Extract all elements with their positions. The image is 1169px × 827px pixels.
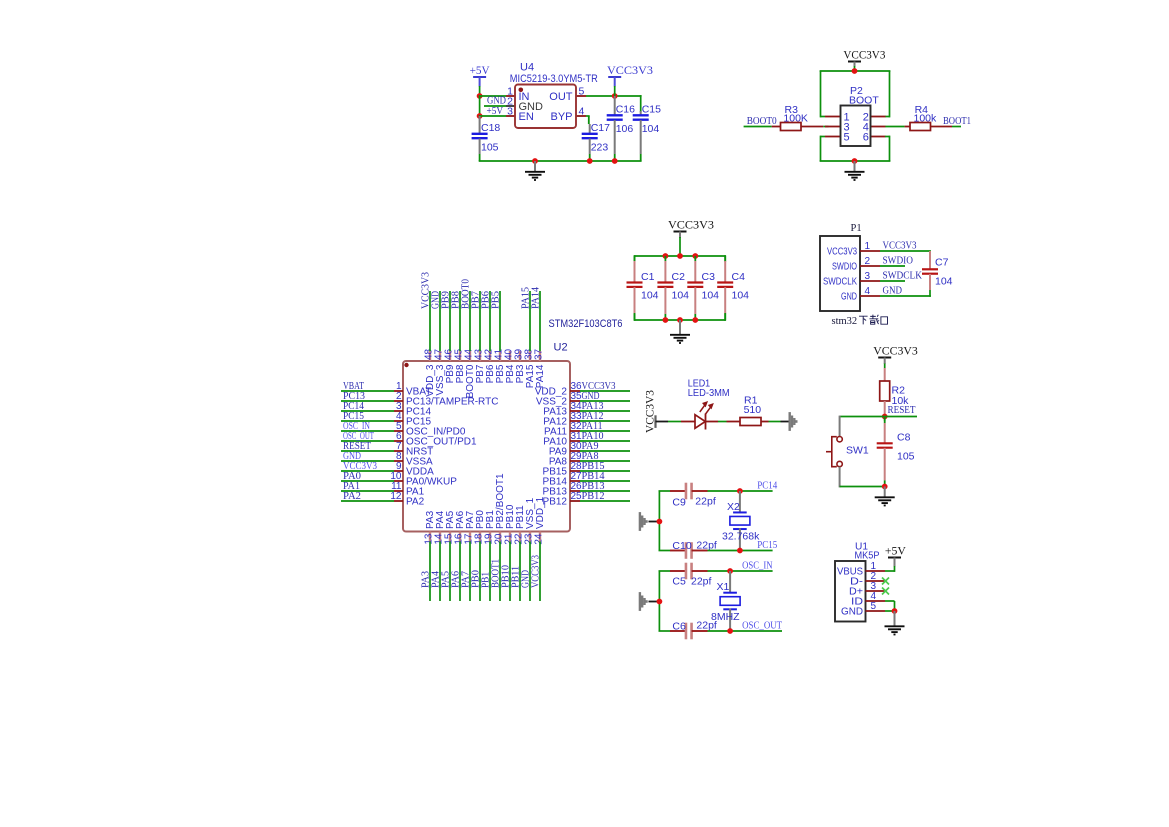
ground (decoupling bank) <box>670 320 690 343</box>
wire net PA2 (mcu left pin 12) <box>341 500 394 502</box>
wire R4 to BOOT1 <box>952 126 961 128</box>
svg-text:C15: C15 <box>642 104 661 116</box>
mcu U2 pin 24 VDD_1 (bottom) <box>534 496 546 544</box>
junction at IN node <box>477 93 483 99</box>
wire pin1 to C7 top <box>880 250 931 252</box>
capacitor C5 22pf <box>670 563 712 588</box>
ground (usb) <box>885 611 905 635</box>
wire net OSC_IN (mcu left pin 5) <box>341 430 394 432</box>
mcu U2 pin 40 PB4 (top) <box>504 348 516 383</box>
wire 8M left rail <box>658 571 660 631</box>
mcu U2 pin 29 PA8 (right) <box>549 451 582 467</box>
mcu U2 pin 9 VDDA (left) <box>394 461 434 477</box>
svg-text:5: 5 <box>579 86 585 98</box>
svg-text:X2: X2 <box>727 501 740 513</box>
wire OUT rail corner down to C15 <box>640 95 642 112</box>
svg-text:1: 1 <box>865 241 871 252</box>
wire net PB5 (mcu top pin 41) <box>499 291 501 351</box>
wire net VCC3V3 (mcu top pin 48) <box>429 291 431 351</box>
svg-text:C8: C8 <box>897 432 911 444</box>
svg-text:VCC3V3: VCC3V3 <box>531 555 542 588</box>
wire boot left rail lower <box>820 136 822 161</box>
wire cap bank bottom rail <box>635 319 726 321</box>
svg-text:GND: GND <box>487 96 506 107</box>
svg-text:4: 4 <box>579 106 585 118</box>
svg-text:OUT: OUT <box>549 91 573 103</box>
svg-text:VCC3V3: VCC3V3 <box>843 49 885 61</box>
junction top rail VCC <box>677 253 683 259</box>
svg-text:104: 104 <box>642 123 660 135</box>
wire pin4 to C7 bottom <box>880 295 931 297</box>
wire net PA14 (mcu top pin 37) <box>539 291 541 351</box>
ground rail wire (regulator) <box>479 160 642 162</box>
junction reset gnd node <box>882 484 888 490</box>
svg-text:C3: C3 <box>702 271 716 283</box>
svg-text:6: 6 <box>863 132 869 144</box>
wire net RESET (mcu left pin 7) <box>341 450 394 452</box>
power flag VCC3V3 (reset) <box>873 345 918 357</box>
wire net VCC3V3 (mcu bottom pin 24) <box>539 542 541 602</box>
capacitor C15 104 <box>633 104 661 162</box>
resistor R1 510 <box>727 395 769 426</box>
svg-text:P1: P1 <box>851 223 862 234</box>
resistor R3 100K <box>772 104 824 131</box>
svg-text:104: 104 <box>641 290 659 302</box>
svg-text:PC14: PC14 <box>757 481 778 492</box>
wire C9 to PC14 <box>708 490 773 492</box>
wire boot left rail upper <box>820 71 822 117</box>
wire VCC3V3 to R2 <box>884 364 886 369</box>
wire VCC3V3 to cap rail <box>679 237 681 256</box>
svg-text:GND: GND <box>841 292 857 303</box>
wire C6 to OSC_OUT <box>708 630 783 632</box>
svg-text:105: 105 <box>481 142 499 154</box>
wire VCC3V3 to boot rail <box>854 66 856 71</box>
wire +5V to VBUS <box>894 566 896 572</box>
svg-text:5: 5 <box>844 132 850 144</box>
wire net PA4 (mcu bottom pin 14) <box>439 542 441 602</box>
junction reset node <box>882 414 888 420</box>
svg-text:C6: C6 <box>672 621 686 633</box>
ground arrow (8M) <box>640 592 647 611</box>
wire to LED anode <box>668 421 681 423</box>
svg-text:C2: C2 <box>672 271 686 283</box>
svg-text:510: 510 <box>744 404 762 416</box>
svg-text:X1: X1 <box>717 581 730 593</box>
wire net PC15 (mcu left pin 4) <box>341 420 394 422</box>
svg-text:3: 3 <box>507 106 513 118</box>
no-connect D+ <box>882 588 889 595</box>
wire cap bank top rail <box>635 255 726 257</box>
mcu U2 pin 44 BOOT0 (top) <box>464 348 476 398</box>
svg-text:PA14: PA14 <box>535 364 546 388</box>
wire net VCC3V3 (mcu left pin 9) <box>341 470 394 472</box>
power flag VCC3V3 (regulator output) <box>607 65 653 77</box>
svg-text:SWDCLK: SWDCLK <box>883 271 923 282</box>
svg-text:U4: U4 <box>520 62 534 74</box>
wire SWDCLK stub <box>880 280 905 282</box>
mcu U2 pin 34 PA13 (right) <box>543 401 582 417</box>
mcu U2 pin 23 VSS_1 (bottom) <box>524 497 536 544</box>
svg-text:VCC3V3: VCC3V3 <box>873 345 918 357</box>
wire boot bottom rail <box>820 160 891 162</box>
svg-text:PB12: PB12 <box>543 497 568 508</box>
wire SW1 bottom to gnd node <box>840 486 885 488</box>
ground (reset) <box>875 487 895 506</box>
mcu U2 pin 37 PA14 (top) <box>534 348 546 388</box>
wire +5V rail down <box>479 96 481 116</box>
switch SW1 <box>826 416 869 488</box>
ground arrow (32k) <box>640 512 647 531</box>
junction top rail C2 <box>663 253 669 259</box>
mcu U2 pin 35 VSS_2 (right) <box>536 391 582 407</box>
svg-text:100k: 100k <box>914 113 938 125</box>
wire C5 to OSC_IN <box>708 570 773 572</box>
junction gnd rail at ground <box>532 158 538 164</box>
wire net PC13 (mcu left pin 2) <box>341 400 394 402</box>
capacitor C3 104 <box>687 256 719 320</box>
junction 32k rail <box>657 519 663 525</box>
svg-text:stm32: stm32 <box>832 316 858 327</box>
svg-text:SW1: SW1 <box>846 445 869 457</box>
wire R2 to reset node <box>884 414 886 417</box>
svg-text:2: 2 <box>865 256 871 267</box>
junction gnd rail at C17 <box>587 158 593 164</box>
svg-text:3: 3 <box>865 271 871 282</box>
capacitor C6 22pf <box>670 620 717 640</box>
svg-text:SWDCLK: SWDCLK <box>823 277 857 288</box>
capacitor C8 105 <box>877 418 915 487</box>
capacitor C18 105 <box>472 116 501 161</box>
junction usb gnd <box>892 608 898 614</box>
resistor R4 100k <box>905 104 952 131</box>
junction OSC_IN / X1 top <box>727 568 733 574</box>
capacitor C1 104 <box>627 256 659 320</box>
svg-text:C5: C5 <box>672 576 686 588</box>
mcu U2 pin 14 PA4 (bottom) <box>434 510 446 544</box>
mcu U2 pin 20 PB2/BOOT1 (bottom) <box>494 473 506 545</box>
mcu U2 pin 21 PB10 (bottom) <box>504 504 516 545</box>
junction at EN node <box>477 113 483 119</box>
mcu U2 pin 47 VSS_3 (top) <box>434 348 446 395</box>
wire net PB0 (mcu bottom pin 18) <box>479 542 481 602</box>
wire net PB10 (mcu bottom pin 21) <box>509 542 511 602</box>
svg-text:C1: C1 <box>641 271 655 283</box>
capacitor C7 104 <box>929 251 931 269</box>
mcu U2 pin 27 PB14 (right) <box>543 471 583 487</box>
power flag +5V (usb) <box>885 545 907 557</box>
svg-text:PA2: PA2 <box>343 491 361 502</box>
no-connect D- <box>882 578 889 585</box>
wire EN node to pin 3 <box>479 115 506 117</box>
ground arrow (led) <box>790 412 797 431</box>
wire IN node to pin 1 <box>479 95 506 97</box>
wire net PA5 (mcu bottom pin 15) <box>449 542 451 602</box>
wire net GND (mcu bottom pin 23) <box>529 542 531 602</box>
svg-text:VCC3V3: VCC3V3 <box>607 65 653 77</box>
mcu U2 pin 19 PB1 (bottom) <box>484 510 496 545</box>
svg-text:SWDIO: SWDIO <box>883 256 914 267</box>
wire boot top rail <box>820 70 891 72</box>
wire pin 4 to R4 <box>885 126 904 128</box>
mcu U2 pin 41 PB5 (top) <box>494 348 506 383</box>
svg-text:104: 104 <box>732 290 750 302</box>
svg-text:104: 104 <box>702 290 720 302</box>
wire reset node to SW1 <box>840 416 885 418</box>
wire net PA8 (mcu right pin 29) <box>580 460 630 462</box>
crystal X2 32.768k <box>722 491 760 551</box>
mcu U2 pin 17 PA7 (bottom) <box>464 510 476 544</box>
wire net PB6 (mcu top pin 42) <box>489 291 491 351</box>
wire net OSC_OUT (mcu left pin 6) <box>341 440 394 442</box>
mcu U2 pin 45 PB8 (top) <box>454 348 466 383</box>
ic U4 MIC5219-3.0YM5-TR <box>506 62 598 129</box>
mcu U2 pin 31 PA10 (right) <box>543 431 582 447</box>
svg-text:+5V: +5V <box>885 545 907 557</box>
svg-text:RESET: RESET <box>888 405 917 416</box>
mcu U2 pin 42 PB6 (top) <box>484 348 496 383</box>
svg-text:LED-3MM: LED-3MM <box>688 387 730 399</box>
wire net PA11 (mcu right pin 32) <box>580 430 630 432</box>
wire OUT to VCC3V3 node <box>586 95 642 97</box>
mcu U2 pin 36 VDD_2 (right) <box>535 381 582 397</box>
junction bottom rail C2 <box>663 317 669 323</box>
svg-text:C4: C4 <box>732 271 746 283</box>
wire net PB13 (mcu right pin 26) <box>580 490 630 492</box>
svg-text:22pf: 22pf <box>691 576 712 588</box>
wire net PA13 (mcu right pin 34) <box>580 410 630 412</box>
wire ID to gnd node <box>885 600 895 602</box>
junction gnd rail at C16 <box>612 158 618 164</box>
ground (regulator) <box>525 161 545 180</box>
power flag VCC3V3 (decoupling bank) <box>668 219 714 231</box>
header P1 (stm32 download port) <box>820 223 880 311</box>
mcu U2 pin 2 PC13/TAMPER-RTC (left) <box>394 391 498 407</box>
svg-text:32.768k: 32.768k <box>722 531 760 543</box>
svg-text:GND: GND <box>841 607 863 618</box>
mcu U2 pin 30 PA9 (right) <box>549 441 582 457</box>
mcu U2 pin 6 OSC_OUT/PD1 (left) <box>394 431 477 447</box>
svg-text:4: 4 <box>865 286 871 297</box>
wire R3 to pin 3 <box>823 126 828 128</box>
mcu U2 pin 5 OSC_IN/PD0 (left) <box>394 421 466 437</box>
junction at C16 top <box>612 93 618 99</box>
svg-text:U2: U2 <box>554 342 568 354</box>
wire net PA15 (mcu top pin 38) <box>529 291 531 351</box>
wire net PA6 (mcu bottom pin 16) <box>459 542 461 602</box>
svg-text:OSC_OUT: OSC_OUT <box>742 621 782 632</box>
mcu U2 pin 38 PA15 (top) <box>524 348 536 388</box>
wire net BOOT1 (mcu bottom pin 20) <box>499 542 501 602</box>
svg-text:VDD_1: VDD_1 <box>535 496 546 529</box>
mcu U2 pin 10 PA0/WKUP (left) <box>390 471 457 487</box>
wire net PA12 (mcu right pin 33) <box>580 420 630 422</box>
wire R1 to ground arrow <box>769 421 781 423</box>
svg-text:BYP: BYP <box>550 111 572 123</box>
wire C10 to PC15 <box>708 550 773 552</box>
junction bottom rail gnd <box>677 317 683 323</box>
wire GND to pin 2 <box>484 105 506 107</box>
capacitor C2 104 <box>657 256 689 320</box>
svg-text:MIC5219-3.0YM5-TR: MIC5219-3.0YM5-TR <box>510 73 598 85</box>
junction OSC_OUT / X1 bottom <box>727 628 733 634</box>
mcu U2 pin 26 PB13 (right) <box>543 481 583 497</box>
wire net PB8 (mcu top pin 45) <box>459 291 461 351</box>
crystal X1 8MHZ <box>711 571 740 631</box>
usb connector U1 MK5P <box>835 541 885 622</box>
wire net PA7 (mcu bottom pin 17) <box>469 542 471 602</box>
wire BYP to C17 <box>586 115 590 117</box>
svg-text:22pf: 22pf <box>695 496 716 508</box>
wire net PB15 (mcu right pin 28) <box>580 470 630 472</box>
wire net PA0 (mcu left pin 10) <box>341 480 394 482</box>
wire net PB11 (mcu bottom pin 22) <box>519 542 521 602</box>
wire net PC14 (mcu left pin 3) <box>341 410 394 412</box>
svg-text:PA14: PA14 <box>531 286 542 309</box>
svg-text:5: 5 <box>871 601 877 612</box>
mcu U2 pin 43 PB7 (top) <box>474 348 486 383</box>
mcu U2 pin 13 PA3 (bottom) <box>424 510 436 544</box>
wire GND pin to gnd node <box>885 610 895 612</box>
svg-text:+5V: +5V <box>470 65 491 77</box>
wire VCC3V3 flag down <box>614 86 616 96</box>
power flag VCC3V3 (led, rotated) <box>645 390 657 433</box>
wire net GND (mcu left pin 8) <box>341 460 394 462</box>
svg-text:VCC3V3: VCC3V3 <box>827 247 857 258</box>
capacitor C16 106 <box>607 96 635 161</box>
mcu U2 pin 4 PC15 (left) <box>394 411 431 427</box>
svg-text:C17: C17 <box>591 122 610 134</box>
svg-text:C9: C9 <box>672 497 686 509</box>
resistor R2 10k <box>880 368 909 414</box>
svg-text:GND: GND <box>883 286 903 297</box>
svg-text:MK5P: MK5P <box>855 550 880 562</box>
mcu U2 pin 1 VBAT (left) <box>394 381 431 397</box>
wire net PB14 (mcu right pin 27) <box>580 480 630 482</box>
wire 32k left rail <box>658 491 660 551</box>
power flag VCC3V3 (boot header) <box>843 49 885 61</box>
mcu U2 pin 25 PB12 (right) <box>543 491 583 507</box>
svg-text:PB5: PB5 <box>491 291 502 309</box>
junction PC15 / X2 bottom <box>737 548 743 554</box>
svg-text:VCC3V3: VCC3V3 <box>668 219 714 231</box>
wire VCC3V3 flag to LED (black stub) <box>656 421 669 423</box>
led LED1 LED-3MM <box>681 378 730 430</box>
junction boot bottom rail <box>852 158 858 164</box>
wire +5V down to IN <box>479 86 481 97</box>
capacitor C9 22pf <box>670 483 716 509</box>
wire boot right rail lower <box>889 136 891 161</box>
mcu U2 STM32F103C8T6 body <box>403 318 623 532</box>
wire net PA10 (mcu right pin 31) <box>580 440 630 442</box>
wire boot right rail upper <box>889 71 891 117</box>
wire net GND (mcu right pin 35) <box>580 400 630 402</box>
junction top rail C3 <box>692 253 698 259</box>
svg-text:C10: C10 <box>672 540 691 552</box>
svg-text:BOOT0: BOOT0 <box>747 116 777 127</box>
mcu U2 pin 33 PA12 (right) <box>543 411 582 427</box>
junction PC14 / X2 top <box>737 488 743 494</box>
junction boot top rail <box>852 68 858 74</box>
mcu U2 pin 22 PB11 (bottom) <box>514 505 526 545</box>
wire net PA3 (mcu bottom pin 13) <box>429 542 431 602</box>
wire net PB1 (mcu bottom pin 19) <box>489 542 491 602</box>
svg-text:PB12: PB12 <box>582 491 605 502</box>
mcu U2 pin 3 PC14 (left) <box>394 401 431 417</box>
svg-text:223: 223 <box>591 142 609 154</box>
svg-text:106: 106 <box>616 123 634 135</box>
svg-text:C18: C18 <box>481 122 500 134</box>
wire net PB9 (mcu top pin 46) <box>449 291 451 351</box>
mcu U2 pin 46 PB9 (top) <box>444 348 456 383</box>
svg-text:SWDIO: SWDIO <box>832 262 857 273</box>
svg-text:24: 24 <box>534 533 545 545</box>
svg-text:37: 37 <box>534 348 545 360</box>
label stm32 download port (chinese) <box>832 315 888 327</box>
svg-text:OSC_IN: OSC_IN <box>742 561 773 572</box>
wire reset node down to C8 <box>884 417 886 422</box>
svg-text:100K: 100K <box>783 113 808 125</box>
junction 8M rail <box>657 599 663 605</box>
wire LED cathode to R1 <box>718 421 727 423</box>
mcu U2 pin 12 PA2 (left) <box>390 491 424 507</box>
header P2 BOOT <box>825 85 886 146</box>
svg-text:EN: EN <box>519 111 534 123</box>
svg-text:BOOT1: BOOT1 <box>943 116 971 127</box>
capacitor C4 104 <box>717 256 749 320</box>
mcu U2 pin 15 PA5 (bottom) <box>444 510 456 544</box>
wire SWDIO stub <box>880 265 905 267</box>
svg-text:C16: C16 <box>616 104 635 116</box>
svg-text:C7: C7 <box>935 257 949 269</box>
mcu U2 pin 32 PA11 (right) <box>544 421 582 437</box>
mcu U2 pin 39 PB3 (top) <box>514 348 526 383</box>
wire net PA9 (mcu right pin 30) <box>580 450 630 452</box>
wire net PB12 (mcu right pin 25) <box>580 500 630 502</box>
capacitor C17 223 <box>582 122 610 161</box>
mcu U2 pin 28 PB15 (right) <box>543 461 583 477</box>
svg-text:105: 105 <box>897 451 915 463</box>
power flag +5V (regulator input) <box>470 65 491 77</box>
wire BOOT0 to R3 <box>744 126 772 128</box>
capacitor C10 22pf <box>670 540 717 559</box>
svg-text:PA2: PA2 <box>406 497 425 508</box>
svg-text:STM32F103C8T6: STM32F103C8T6 <box>549 318 623 330</box>
wire net GND (mcu top pin 47) <box>439 291 441 351</box>
wire net VCC3V3 (mcu right pin 36) <box>580 390 630 392</box>
svg-text:BOOT: BOOT <box>849 95 879 107</box>
wire net VBAT (mcu left pin 1) <box>341 390 394 392</box>
mcu U2 pin 16 PA6 (bottom) <box>454 510 466 544</box>
mcu U2 pin 7 NRST (left) <box>394 441 433 457</box>
mcu U2 pin 18 PB0 (bottom) <box>474 510 486 545</box>
ground (boot header) <box>845 161 865 180</box>
wire net PA1 (mcu left pin 11) <box>341 490 394 492</box>
svg-text:22pf: 22pf <box>696 620 717 632</box>
svg-text:104: 104 <box>672 290 690 302</box>
mcu U2 pin 48 VDD_3 (top) <box>424 348 436 396</box>
junction bottom rail C3 <box>692 317 698 323</box>
wire net BOOT0 (mcu top pin 44) <box>469 291 471 351</box>
svg-text:104: 104 <box>935 276 953 288</box>
mcu U2 pin 8 VSSA (left) <box>394 451 433 467</box>
svg-text:PC15: PC15 <box>757 540 777 551</box>
wire reset node right <box>885 416 917 418</box>
svg-text:VCC3V3: VCC3V3 <box>883 241 917 252</box>
wire net PB7 (mcu top pin 43) <box>479 291 481 351</box>
mcu U2 pin 11 PA1 (left) <box>391 481 424 497</box>
